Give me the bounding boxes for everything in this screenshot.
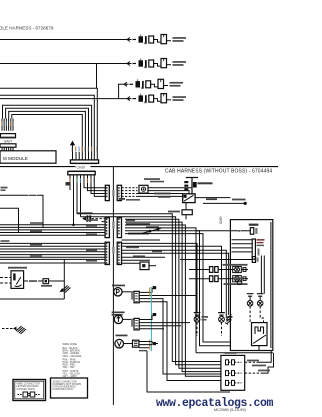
bullet row A feed bbox=[189, 269, 210, 271]
ground hatch on box edge bbox=[225, 315, 232, 325]
connector GA07 body bbox=[1, 134, 16, 138]
main harness interface box bbox=[221, 355, 245, 390]
connector pair P0 left bbox=[105, 185, 109, 200]
svg-text:CH20: CH20 bbox=[77, 166, 86, 170]
C125 left harness wires bbox=[0, 222, 105, 236]
wire labels keyswitch bbox=[154, 193, 171, 195]
inner bus vertical bbox=[270, 222, 272, 348]
connector CH20 bottom half bbox=[69, 170, 95, 173]
wire colour codes GA07 bbox=[1, 120, 13, 126]
svg-text:TAN - TAN: TAN - TAN bbox=[63, 366, 75, 369]
P0 output wires bbox=[122, 188, 138, 197]
tiny node label bbox=[66, 182, 71, 186]
wire bundle W1 bbox=[0, 88, 97, 160]
nested harness loop wire 3 bbox=[9, 111, 86, 159]
wire row1 feed bbox=[0, 39, 127, 41]
C126 output wires right bbox=[122, 250, 229, 318]
bulb B1 bbox=[247, 294, 254, 323]
inline capacitor marker bbox=[82, 217, 86, 221]
svg-text:GRD: GRD bbox=[219, 217, 223, 225]
ground drop vertical bbox=[63, 259, 65, 299]
C103 wires bbox=[232, 240, 253, 252]
lamp L1 bbox=[194, 313, 201, 336]
connector GA07 wires bbox=[2, 119, 13, 131]
wire colour codes CH20 bottom bbox=[69, 178, 94, 183]
bus wire H bbox=[125, 234, 230, 342]
gauge G1 wires bbox=[139, 288, 221, 381]
stepped wire from left lower bbox=[0, 208, 19, 232]
section divider line bbox=[0, 166, 278, 168]
P0 id blob bbox=[112, 190, 114, 197]
svg-text:ORG - ORANGE: ORG - ORANGE bbox=[63, 355, 82, 358]
ignition fuse stack bbox=[184, 181, 188, 183]
connector row2 bbox=[127, 59, 186, 69]
CH20 bottom wires bbox=[70, 175, 105, 225]
motor M1 bbox=[139, 185, 148, 193]
connector pair P0 right bbox=[117, 185, 121, 200]
terminal wire with stud bbox=[203, 202, 244, 204]
bus wire F bbox=[125, 228, 196, 353]
relay output wire bbox=[24, 280, 43, 282]
wire colour codes CH20 top bbox=[72, 147, 98, 152]
relay K1 label bbox=[8, 267, 27, 269]
interface connector row 1 bbox=[226, 360, 242, 365]
extra wire tags bbox=[126, 220, 162, 257]
note box A bbox=[13, 380, 46, 401]
ground symbol G1 bbox=[61, 286, 71, 293]
connector CH20 top half bbox=[70, 160, 98, 163]
junction dot bbox=[72, 224, 75, 227]
gauge G3 connector bbox=[133, 340, 139, 347]
gauge G2 wires bbox=[139, 315, 190, 329]
wire row3 L-feed bbox=[119, 84, 124, 98]
lamp feed 1 bbox=[122, 243, 198, 312]
svg-text:CAB HARNESS (WITHOUT BOSS) - 6: CAB HARNESS (WITHOUT BOSS) - 6704494 bbox=[165, 168, 272, 174]
solenoid box bbox=[252, 323, 268, 346]
gauge G2 label bbox=[112, 312, 125, 314]
box BOSS MODULE bbox=[0, 151, 56, 163]
bulb B2 bbox=[257, 294, 264, 323]
cyan wire code mark bbox=[151, 287, 152, 351]
pin connector P2 bbox=[252, 257, 255, 263]
svg-text:PURPOSES ONLY: PURPOSES ONLY bbox=[53, 388, 75, 391]
wire row2 feed bbox=[0, 63, 127, 65]
middle bus verticals bbox=[77, 214, 252, 376]
gauge G3 voltmeter bbox=[115, 339, 124, 348]
motor M1 labels bbox=[144, 178, 160, 180]
solenoid bottom wire bbox=[258, 346, 260, 351]
keyswitch output wire bbox=[195, 197, 230, 199]
bus wire C bbox=[125, 219, 221, 368]
gauge G1 connector bbox=[134, 291, 139, 303]
wire D1 to ground drop bbox=[49, 280, 65, 282]
bullet pair row A bbox=[210, 267, 213, 273]
ANTL connector bbox=[250, 228, 254, 235]
svg-text:WIRE CODE: WIRE CODE bbox=[63, 343, 78, 346]
connector row3 bbox=[124, 79, 183, 89]
stub wires into CH20 bbox=[73, 150, 80, 160]
label GRD vertical bbox=[219, 217, 223, 225]
ignition label bbox=[198, 182, 213, 184]
wire tag labels left bus bbox=[1, 187, 99, 262]
C126 left harness wires bbox=[0, 243, 105, 263]
C126 id blob bbox=[112, 247, 114, 254]
bus wire E bbox=[125, 225, 221, 376]
nested harness loop wire 1 bbox=[3, 105, 92, 160]
lamp L2 bbox=[218, 313, 225, 336]
connector pair C126 left bbox=[105, 242, 109, 264]
diode module D2 bbox=[140, 262, 149, 270]
box bottom double line bbox=[196, 352, 273, 354]
bus wire B bbox=[81, 217, 221, 365]
stepped wire from left top bbox=[0, 195, 43, 227]
gauge G2 connector bbox=[134, 318, 139, 330]
bus wire G bbox=[125, 231, 230, 346]
bus wire D bbox=[125, 222, 221, 372]
bus wire A bbox=[77, 214, 221, 362]
legend text block bbox=[63, 343, 82, 378]
right device box bbox=[230, 220, 272, 351]
note box B bbox=[51, 378, 88, 398]
interface output wires bbox=[245, 351, 274, 374]
wire bundle W2 bbox=[0, 95, 94, 160]
svg-text:CONNECTIONS: CONNECTIONS bbox=[17, 388, 36, 391]
gauge G1 oil pressure bbox=[114, 288, 122, 296]
connector C103 bar bbox=[252, 239, 255, 259]
gauge G3 label voltmeter bbox=[116, 335, 128, 337]
connector row1 bbox=[127, 35, 186, 45]
gauge G2 temperature bbox=[114, 315, 122, 323]
wires M1 to ignition bbox=[138, 188, 193, 197]
relay K1 feed wires bbox=[0, 278, 11, 284]
ignition switch box bbox=[183, 194, 195, 203]
G3 terminal bbox=[152, 342, 156, 345]
connector pair C125 left bbox=[105, 218, 109, 238]
beacon terminal bbox=[237, 280, 242, 285]
module connector strip bbox=[0, 144, 16, 147]
harness boundary vertical through connectors bbox=[112, 167, 114, 405]
splice arrow above CH20 bbox=[70, 142, 79, 160]
ignition switch T-bar bbox=[186, 178, 198, 194]
bottom return wire bbox=[0, 298, 64, 300]
label ANTL bbox=[249, 224, 258, 226]
note box A connector glyph bbox=[18, 392, 41, 397]
inline capacitor marker label bbox=[77, 212, 93, 214]
C125 id blob bbox=[112, 222, 114, 229]
svg-text:DLE HARNESS - 6728679: DLE HARNESS - 6728679 bbox=[0, 26, 54, 31]
connector pair C125 right bbox=[117, 218, 121, 238]
C103 labels bbox=[257, 239, 265, 241]
diode module D2 feed bbox=[122, 262, 141, 264]
svg-text:MC2589 (5-14-99): MC2589 (5-14-99) bbox=[214, 407, 246, 412]
nested harness loop wire 4 bbox=[12, 115, 83, 160]
interface connector row 3 bbox=[226, 380, 242, 385]
ground symbol G2 bbox=[2, 326, 26, 334]
connector pair C126 right bbox=[117, 242, 121, 264]
interface connector row 2 bbox=[226, 371, 242, 376]
diode D1 bbox=[43, 279, 49, 284]
aux wire to ANTL connector bbox=[122, 239, 161, 241]
relay K1 bbox=[11, 271, 24, 289]
svg-text:M MODULE: M MODULE bbox=[3, 156, 28, 161]
lamp supply verticals bbox=[261, 256, 264, 294]
wire row4 feed bbox=[0, 98, 127, 100]
gauge G3 wires bbox=[124, 342, 230, 393]
lamp LA bbox=[233, 266, 242, 272]
splice S1 diagonal bbox=[141, 228, 161, 233]
gauge G1 label bbox=[112, 285, 125, 287]
connector row4 bbox=[127, 94, 186, 104]
connector pin marks bbox=[106, 187, 120, 264]
nested harness loop wire 2 bbox=[6, 108, 89, 160]
start relay box bbox=[182, 210, 192, 215]
svg-text:GA07: GA07 bbox=[4, 140, 13, 144]
lamp feed 2 bbox=[122, 246, 222, 312]
lamp LB bbox=[233, 276, 242, 282]
row2 branch vertical bbox=[96, 64, 98, 89]
bullet pair row B bbox=[210, 276, 213, 282]
bullet row B feed bbox=[189, 278, 210, 280]
